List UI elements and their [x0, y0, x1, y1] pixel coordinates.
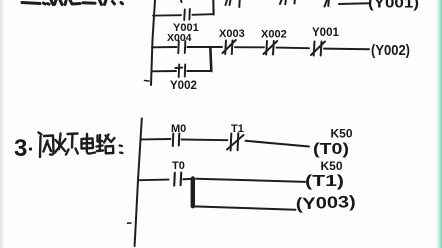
- svg-text:(Y002): (Y002): [371, 42, 410, 59]
- char 闪: [39, 133, 54, 158]
- right edge teal gradient strip: [436, 0, 442, 248]
- svg-text:X003: X003: [219, 28, 245, 40]
- svg-text:Y002: Y002: [170, 80, 197, 92]
- cut-off heading text bottoms (top-left): [22, 0, 123, 5]
- svg-text:(Y001): (Y001): [368, 0, 419, 12]
- svg-text:X002: X002: [261, 29, 287, 41]
- vertical connector to rung 1: [212, 0, 214, 15]
- wire to junction: [187, 46, 222, 48]
- contact X002: [264, 41, 278, 55]
- char 烁: [55, 134, 78, 155]
- contact Y002 (rung 3): [175, 65, 185, 78]
- contact T1 (NC): [227, 133, 244, 150]
- wire X003 to X002: [235, 46, 264, 48]
- wire T0 to junction: [183, 178, 192, 180]
- left power rail (lower circuit): [135, 119, 142, 247]
- wire T1 to coil T0: [246, 141, 310, 147]
- contact X003: [223, 40, 236, 54]
- wire M0 to T1: [182, 139, 228, 142]
- junction vertical (rung2 to rung3): [210, 47, 211, 71]
- rung 3: wire from rail: [152, 70, 177, 72]
- colon: [120, 146, 123, 154]
- contact T0: [174, 173, 181, 186]
- svg-text:T1: T1: [231, 123, 244, 135]
- contact M0: [173, 134, 180, 147]
- svg-text:M0: M0: [171, 123, 186, 135]
- rung M0: wire from rail: [141, 138, 171, 140]
- char 路: [97, 135, 115, 154]
- svg-text:T0: T0: [172, 160, 185, 172]
- svg-text:K50: K50: [331, 127, 353, 141]
- thick junction vertical: [191, 179, 195, 207]
- svg-text:3: 3: [14, 135, 27, 162]
- wire rung A to vertical: [193, 13, 213, 16]
- contact X004 (rung 2): [178, 41, 185, 53]
- svg-text:K50: K50: [321, 159, 343, 173]
- branch wire to coil Y003: [194, 206, 296, 209]
- branch wire to coil T1: [196, 179, 305, 182]
- contact Y001 (rung A): [184, 9, 190, 20]
- wire X002 to Y001 contact: [277, 47, 310, 50]
- rail bottom tick: [145, 80, 150, 83]
- svg-text:(T1): (T1): [305, 173, 344, 190]
- branch rung A: wire from rail: [153, 14, 181, 16]
- left power rail (upper circuit): [151, 0, 155, 85]
- wire into coil Y001 (rung 1): [339, 2, 370, 5]
- contact Y001 (NC, rung 2): [311, 42, 325, 56]
- rung 2: wire from rail: [152, 46, 177, 48]
- wire rung 3 to junction: [187, 70, 211, 72]
- svg-text:(T0): (T0): [313, 141, 349, 158]
- rung 1 (cut off at top): contact fragments: [181, 0, 329, 7]
- wire to coil Y002: [324, 48, 369, 51]
- svg-text:(Y003): (Y003): [295, 193, 356, 214]
- svg-text:Y001: Y001: [312, 27, 339, 39]
- char 电: [82, 134, 96, 154]
- small tick left of rail: [128, 222, 131, 224]
- rung T0: wire from rail: [140, 179, 169, 182]
- section label: 3.闪烁电路:: [14, 133, 123, 163]
